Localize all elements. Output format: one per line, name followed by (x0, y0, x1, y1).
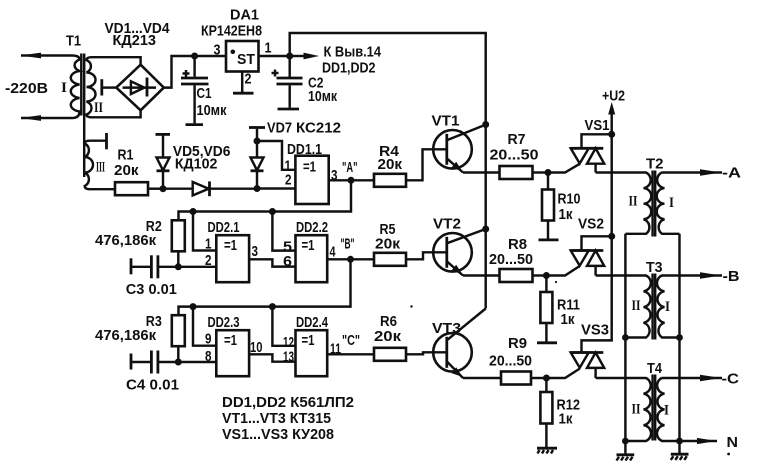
node row2 feed right (269, 208, 276, 215)
svg-text:R1: R1 (118, 148, 134, 164)
node VS1 anode (608, 131, 615, 138)
capacitor C2 (272, 56, 303, 109)
svg-text:N: N (727, 435, 739, 451)
svg-text:"С": "С" (342, 333, 360, 349)
resistor R7 (500, 166, 533, 179)
wire T2 secondary to A output (662, 169, 723, 176)
resistor R6 (374, 348, 406, 361)
svg-text:КД102: КД102 (175, 157, 218, 173)
resistor R1 (115, 182, 148, 195)
node C4 (175, 359, 182, 366)
svg-text:R9: R9 (508, 336, 527, 352)
resistor R12 (537, 378, 557, 454)
svg-text:2: 2 (285, 173, 292, 189)
svg-text:II: II (94, 100, 103, 116)
wire C4 node to DD2.3 pin8 (178, 361, 216, 363)
svg-text:2: 2 (245, 72, 252, 88)
node row2 feed left (190, 208, 197, 215)
wire secondary common N (678, 234, 680, 453)
svg-text:"А": "А" (342, 160, 358, 176)
capacitor C1 (181, 56, 209, 125)
svg-text:6: 6 (283, 254, 292, 270)
gate DD2.3 (216, 330, 249, 376)
wire DA1 pin1 to C2 node (259, 55, 290, 57)
node C2 (286, 53, 293, 60)
wire supply rail top (290, 33, 486, 309)
svg-text:2: 2 (205, 253, 212, 269)
svg-text:VS1: VS1 (585, 118, 610, 134)
svg-text:20к: 20к (378, 157, 403, 173)
wire C3 node to DD2.1 pin2 (178, 266, 216, 268)
svg-text:КР142ЕН8: КР142ЕН8 (201, 24, 262, 40)
svg-text:ST: ST (237, 52, 255, 68)
svg-text:DD2.4: DD2.4 (296, 315, 328, 331)
svg-text:С3 0.01: С3 0.01 (126, 282, 177, 298)
wire VT2 emitter to R8 (463, 274, 500, 276)
zener VD7 (249, 128, 265, 189)
svg-text:VD7: VD7 (267, 121, 292, 137)
svg-text:=1: =1 (224, 333, 237, 349)
wire feed to DD2.2 pin5 (272, 212, 295, 251)
transistor VT2 (433, 229, 486, 276)
triac VS1 (571, 134, 612, 172)
svg-text:=1: =1 (302, 333, 315, 349)
node R7-R10 (545, 169, 552, 176)
node VS2 anode (608, 233, 615, 240)
node row3 feed left (190, 303, 197, 310)
svg-text:I: I (664, 403, 669, 419)
svg-text:VT2: VT2 (433, 217, 461, 233)
speck (727, 453, 730, 456)
wire VT3 emitter to R9 (463, 377, 501, 379)
wire T4 secondary to C output (662, 375, 723, 382)
transformer T2 (625, 171, 679, 237)
wire feed to DD2.3 pin9 (193, 307, 216, 346)
svg-text:I: I (665, 299, 670, 315)
svg-text:DD2.1: DD2.1 (208, 220, 240, 236)
wire VS1 to T2 primary (596, 171, 647, 173)
svg-text:1к: 1к (559, 207, 574, 223)
gate DD1.1 (295, 156, 328, 204)
svg-text:VT1: VT1 (432, 114, 460, 130)
wire R6 to VT3 base (406, 352, 446, 354)
svg-text:Т4: Т4 (647, 361, 662, 377)
svg-text:Т3: Т3 (646, 260, 663, 276)
transistor VT3 (433, 309, 486, 379)
resistor R2 (172, 220, 185, 251)
svg-text:-220В: -220В (5, 81, 48, 97)
wire bridge output to C1 node (164, 56, 195, 88)
svg-text:476,186к: 476,186к (95, 328, 157, 344)
wire N output (680, 438, 718, 444)
node T3 primary bottom (622, 334, 629, 341)
node T4 secondary bottom (676, 438, 683, 445)
wire VS3 to T4 primary (596, 377, 647, 379)
svg-text:=1: =1 (302, 238, 315, 254)
svg-text:III: III (96, 160, 105, 176)
wire VD5 node to VD6 (163, 187, 193, 189)
wire R3 to C4 node (177, 346, 179, 362)
resistor R4 (374, 174, 406, 187)
capacitor C3 (131, 255, 178, 278)
op-amp DA1 regulator (226, 41, 259, 72)
svg-text:-А: -А (722, 166, 742, 182)
wire gate VS2 (546, 266, 579, 276)
wire VS2 to T3 primary (596, 274, 647, 276)
svg-text:-В: -В (723, 269, 740, 285)
svg-text:II: II (632, 402, 641, 418)
ground primary common (617, 455, 635, 461)
svg-text:КД213: КД213 (113, 33, 157, 49)
svg-text:DD2.3: DD2.3 (208, 315, 240, 331)
svg-text:1: 1 (265, 41, 272, 57)
node VT1 collector (482, 121, 489, 128)
wire primary common (624, 234, 626, 454)
wire node B down to row3 feed (179, 259, 351, 315)
wire R2 to C3 node (177, 251, 179, 266)
supply rail +U2 with arrow (582, 102, 616, 353)
svg-text:КС212: КС212 (296, 121, 341, 137)
svg-text:DD1,DD2 К561ЛП2: DD1,DD2 К561ЛП2 (222, 395, 354, 411)
wire DD2.4 output to R6 (327, 353, 374, 355)
wire C1 node to DA1 pin3 (195, 55, 226, 57)
node row3 feed right (269, 303, 276, 310)
DA1 pin2 lead to common (233, 72, 254, 94)
wire R7 to gate node (533, 171, 549, 173)
svg-text:20к: 20к (375, 237, 401, 253)
wire feed to DD2.1 pin1 (193, 212, 216, 251)
wire VD7 node to DD1.1 pin2 (257, 187, 295, 189)
svg-text:R7: R7 (508, 132, 526, 148)
ground secondary common (671, 454, 689, 460)
resistor R11 (537, 276, 557, 343)
common bar at winding III (105, 133, 108, 149)
arrow input bottom (21, 115, 42, 121)
node B (347, 256, 354, 263)
wire T3 secondary to B output (662, 272, 723, 279)
T1 winding I (21, 56, 80, 119)
diode VD6 (193, 181, 257, 196)
T1 winding II (87, 57, 141, 117)
node VT2 collector (482, 226, 489, 233)
arrow to pin14 DD1,DD2 (290, 53, 319, 60)
svg-text:10мк: 10мк (308, 89, 338, 105)
svg-text:II: II (629, 194, 638, 210)
gate DD2.2 (296, 235, 328, 282)
wire gate VS1 (548, 164, 580, 173)
diode VD5 (156, 134, 171, 188)
wire R5 to VT2 base (406, 252, 446, 259)
svg-text:-С: -С (722, 372, 740, 388)
svg-text:DA1: DA1 (230, 8, 259, 24)
svg-text:I: I (61, 80, 67, 96)
svg-text:VT3: VT3 (432, 321, 461, 337)
svg-text:1: 1 (205, 237, 212, 253)
svg-text:Т2: Т2 (646, 157, 664, 173)
svg-text:3: 3 (331, 168, 338, 184)
resistor R3 (172, 315, 185, 346)
svg-text:VS3: VS3 (581, 323, 609, 339)
wire node A down to row2 feed (179, 180, 352, 220)
wire DD2.2 output to node B (327, 258, 374, 260)
svg-text:DD2.2: DD2.2 (296, 220, 328, 236)
svg-text:I: I (669, 195, 674, 211)
resistor R8 (500, 269, 533, 282)
svg-text:1к: 1к (561, 312, 576, 328)
svg-text:II: II (632, 298, 641, 314)
svg-text:DD1.1: DD1.1 (287, 142, 322, 158)
transformer T3 (625, 274, 679, 340)
T1 core (81, 54, 84, 178)
node C3 (175, 263, 182, 270)
svg-text:3: 3 (214, 43, 221, 59)
svg-text:13: 13 (283, 350, 294, 366)
triac VS3 (571, 353, 605, 379)
wire DD1.1 output to node A (329, 179, 374, 181)
wire R9 to gate node (531, 377, 546, 379)
svg-text:DD1,DD2: DD1,DD2 (322, 61, 376, 77)
wire gate VS3 (546, 369, 579, 378)
node T3 secondary bottom (676, 334, 683, 341)
svg-text:3: 3 (252, 244, 259, 260)
svg-text:R10: R10 (558, 192, 581, 208)
gate DD2.1 (216, 235, 249, 282)
triac VS2 (571, 236, 612, 275)
wire R8 to gate node (533, 274, 547, 276)
arrow input top (21, 53, 42, 59)
node VD7 (254, 185, 261, 192)
wire R4 to VT1 base (406, 149, 446, 180)
svg-text:1к: 1к (559, 412, 574, 428)
svg-text:20к: 20к (374, 329, 402, 345)
svg-text:=1: =1 (224, 238, 237, 254)
svg-text:R6: R6 (380, 314, 397, 330)
node A (348, 177, 355, 184)
gate DD2.4 (296, 330, 328, 376)
T1 winding III (85, 141, 115, 190)
transistor VT1 (433, 125, 486, 173)
resistor R9 (501, 372, 531, 385)
svg-text:С1: С1 (197, 86, 212, 102)
wire R1 to VD5 node (148, 187, 163, 189)
common bar at bridge AC input (102, 79, 117, 95)
node VD7 branch (254, 138, 261, 145)
capacitor C4 (131, 351, 178, 374)
speck (555, 281, 557, 283)
svg-text:8: 8 (205, 349, 212, 365)
svg-text:VS1...VS3 КУ208: VS1...VS3 КУ208 (222, 427, 334, 443)
svg-text:=1: =1 (303, 160, 316, 176)
svg-text:R8: R8 (508, 237, 527, 253)
wire DD2.3 out to DD2.4 pin13 (249, 354, 295, 361)
node R9-R12 (543, 375, 550, 382)
svg-text:20...50: 20...50 (490, 148, 539, 164)
node R1-VD5 (160, 185, 167, 192)
svg-text:+U2: +U2 (602, 89, 625, 105)
wire feed to DD2.4 pin12 (272, 307, 295, 346)
svg-text:Т1: Т1 (66, 34, 81, 50)
svg-text:9: 9 (205, 332, 212, 348)
svg-text:20к: 20к (114, 163, 139, 179)
speck (410, 305, 412, 307)
wire DD2.1 out to DD2.2 pin6 (249, 259, 295, 266)
resistor R5 (374, 253, 406, 266)
node C1 (191, 53, 198, 60)
svg-text:К Выв.14: К Выв.14 (324, 45, 382, 61)
svg-text:10мк: 10мк (197, 103, 228, 119)
svg-text:476,186к: 476,186к (95, 233, 157, 249)
wire VD7 branch to DD1.1 pin1 (257, 141, 295, 170)
svg-text:С4 0.01: С4 0.01 (126, 378, 179, 394)
node R8-R11 (543, 272, 550, 279)
bridge rectifier VD1...VD4 (116, 65, 164, 111)
resistor R10 (539, 173, 559, 240)
svg-text:20...50: 20...50 (489, 354, 532, 370)
svg-text:20...50: 20...50 (489, 252, 533, 268)
wire VT1 emitter to R7 (463, 171, 500, 173)
transformer T4 (625, 375, 679, 442)
svg-text:VT1...VT3 КТ315: VT1...VT3 КТ315 (222, 411, 331, 427)
svg-text:VS2: VS2 (578, 217, 604, 233)
node T4 primary bottom (622, 438, 629, 445)
svg-text:"В": "В" (341, 237, 355, 253)
